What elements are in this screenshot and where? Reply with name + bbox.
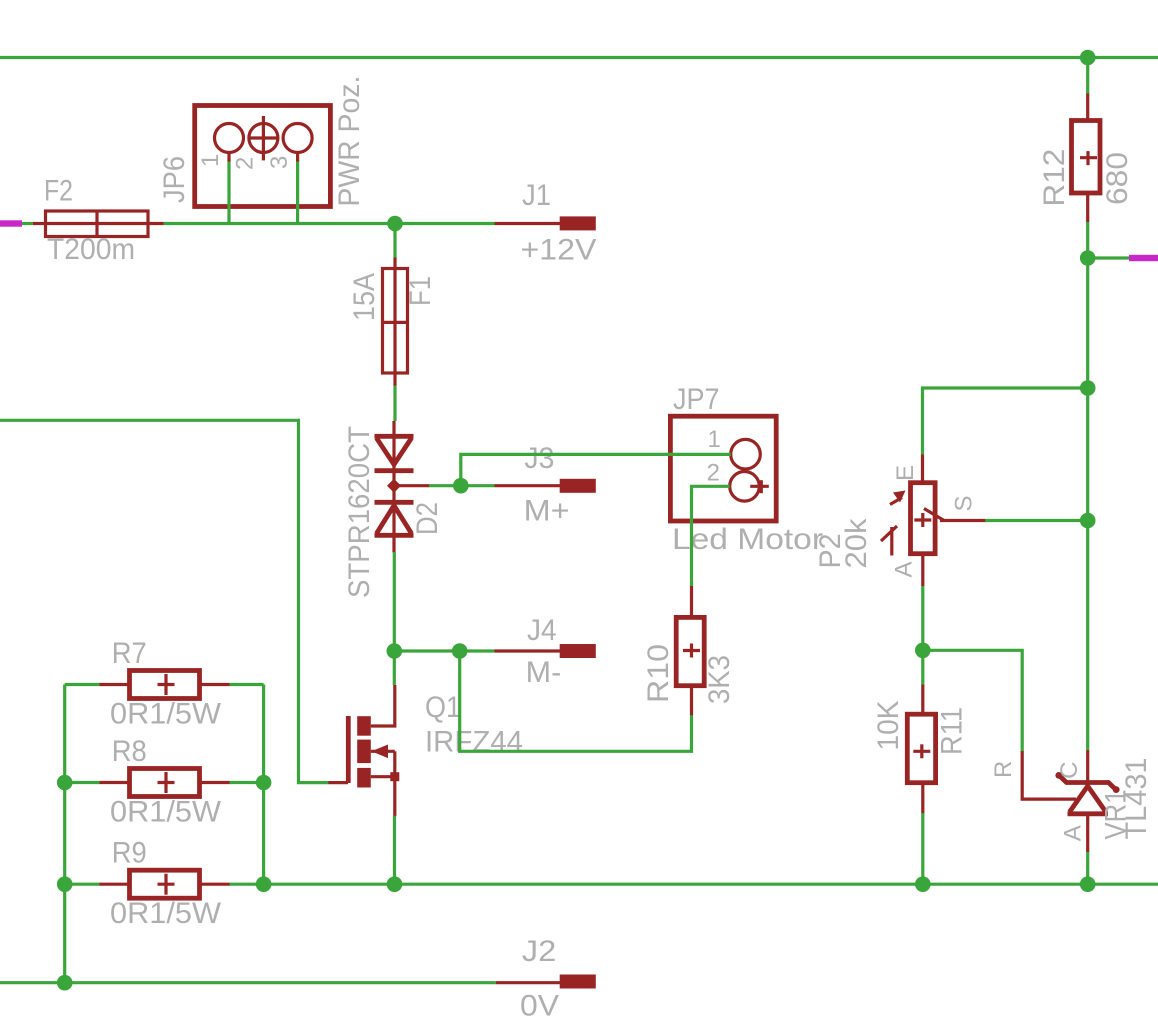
wire J1 pin (495, 222, 561, 225)
node junction top rail (1080, 50, 1096, 66)
wire J2 pin (496, 981, 563, 984)
wire JP6 pin3 stub (296, 152, 299, 161)
svg-text:+12V: +12V (521, 234, 597, 267)
wire F2 right to F1 junction to J1 (163, 222, 495, 225)
wire R node to TL431 ref (923, 650, 1022, 751)
wire VR1 ref pin (1022, 751, 1076, 799)
wire R9 pin left (100, 883, 130, 886)
svg-text:JP6: JP6 (158, 156, 191, 203)
svg-text:1: 1 (708, 426, 721, 453)
node junction R8 left (57, 775, 73, 791)
node junction wiper (1080, 513, 1096, 529)
svg-text:3: 3 (266, 156, 293, 169)
wire R12 pin bottom (1086, 193, 1089, 222)
wire F2 pin left (33, 222, 46, 225)
wire gate feed rail (0, 420, 329, 782)
svg-text:15A: 15A (348, 273, 381, 321)
wire VR1 cathode pin (1086, 750, 1089, 780)
svg-text:IRFZ44: IRFZ44 (425, 726, 523, 759)
wire R8 pin left (100, 781, 130, 784)
connector J1 (560, 216, 596, 230)
transistor Q1 IRFZ44 n-mosfet (348, 685, 399, 816)
svg-text:10K: 10K (872, 701, 905, 751)
wire M+ node segment (429, 484, 495, 487)
node junction source/GND (387, 876, 403, 892)
resistor R7 (130, 671, 200, 699)
svg-text:S: S (951, 495, 978, 511)
svg-text:R11: R11 (936, 707, 969, 755)
node junction R11/GND (915, 876, 931, 892)
svg-text:M-: M- (526, 656, 562, 689)
svg-text:F1: F1 (404, 276, 437, 306)
svg-text:J1: J1 (522, 179, 551, 212)
resistor R9 (130, 870, 200, 898)
node junction 0V left (57, 975, 73, 991)
connector J3 (560, 479, 596, 493)
svg-text:Q1: Q1 (425, 691, 461, 724)
node junction M- right (452, 643, 468, 659)
svg-text:0R1/5W: 0R1/5W (110, 796, 222, 829)
wire M+ up to JP7 pin1 (461, 454, 731, 485)
svg-text:F2: F2 (44, 175, 73, 208)
wire R7 pin left (100, 683, 130, 686)
wire P2 pin bottom (921, 554, 924, 586)
wire F2 pin right (147, 222, 164, 225)
svg-text:JP7: JP7 (673, 383, 720, 416)
wire R12 pin top (1086, 94, 1089, 121)
wire R11 bottom (921, 813, 924, 885)
svg-text:A: A (891, 561, 918, 577)
wire J3 pin (495, 484, 561, 487)
wire P2 wiper to column (985, 519, 1087, 522)
wire F2 left entry (20, 222, 34, 225)
svg-text:Led Motor: Led Motor (672, 523, 823, 556)
svg-text:R7: R7 (112, 637, 147, 670)
svg-text:D2: D2 (411, 502, 444, 535)
svg-text:R9: R9 (112, 837, 147, 870)
wire R10 bottom loop to M- (460, 651, 692, 751)
wire M- down to Q1 drain (393, 651, 396, 685)
node junction R9 left (57, 876, 73, 892)
svg-text:0V: 0V (520, 989, 559, 1022)
resistor R10 (676, 617, 704, 685)
svg-text:1: 1 (197, 154, 224, 167)
svg-text:J3: J3 (524, 442, 554, 475)
node junction P2 feed (1080, 380, 1096, 396)
wire P2 top feed (923, 388, 1088, 455)
svg-text:2: 2 (232, 157, 259, 170)
diode D2 dual common-cathode STPR1620CT (375, 421, 430, 553)
wire VR1 anode bottom (1086, 851, 1089, 884)
potentiometer P2 (881, 483, 986, 556)
wire R10 pin top (690, 586, 693, 617)
wire R9 pin right (199, 883, 230, 886)
wire R8 pin right (199, 781, 230, 784)
svg-text:2: 2 (707, 460, 720, 487)
wire R9 left (65, 883, 100, 886)
svg-text:3K3: 3K3 (703, 655, 736, 704)
wire top +BATT rail (0, 56, 1158, 59)
wire JP6 pin3 drop (296, 160, 299, 224)
svg-text:0R1/5W: 0R1/5W (110, 698, 222, 731)
fuse F1 (383, 269, 408, 374)
svg-text:J2: J2 (522, 935, 557, 968)
wire R11 pin bottom (921, 782, 924, 813)
node junction R12 bottom (1080, 250, 1096, 266)
wire left shunt rail (63, 685, 66, 983)
svg-text:0R1/5W: 0R1/5W (110, 897, 222, 930)
svg-text:T200m: T200m (47, 233, 135, 266)
regulator VR1 TL431 (1055, 772, 1119, 814)
svg-text:E: E (892, 465, 919, 481)
wire R12 bottom column (1086, 221, 1089, 750)
wire 0V rail (0, 981, 496, 984)
wire GND rail (229, 883, 1158, 886)
resistor R12 (1072, 121, 1101, 194)
wire F1 bottom to D2 (393, 385, 396, 421)
wire Q1 gate stub (328, 781, 348, 784)
wire R10 pin bottom (690, 685, 693, 715)
wire P2 bottom (921, 586, 924, 686)
svg-text:TL431: TL431 (1120, 758, 1153, 840)
wire right column top (1086, 58, 1089, 95)
svg-text:A: A (1060, 825, 1087, 841)
wire JP6 pin1 drop (227, 160, 230, 224)
node off-sheet left (0, 220, 22, 226)
svg-text:PWR Poz.: PWR Poz. (333, 76, 366, 207)
wire P2 pin top (921, 455, 924, 483)
wire Q1 source down (393, 816, 396, 884)
node junction R11 top (915, 643, 931, 659)
wire R8 left (65, 781, 100, 784)
node junction VR1/GND (1080, 876, 1096, 892)
wire JP6 pin1 stub (227, 152, 230, 161)
wire R8 right (229, 781, 264, 784)
wire VR1 anode pin (1086, 816, 1089, 852)
fuse F2 (46, 211, 149, 237)
node junction +12V/F1 (387, 216, 403, 232)
connector JP7 (670, 416, 776, 521)
wire R11 pin top (921, 685, 924, 715)
wire R7 pin right (199, 683, 230, 686)
node junction M+ (453, 478, 469, 494)
svg-text:680: 680 (1101, 152, 1134, 205)
wire right exit (1088, 256, 1158, 259)
wire F1 pin bottom (393, 373, 396, 386)
svg-text:R10: R10 (642, 644, 675, 703)
wire right shunt rail (262, 685, 265, 885)
wire R7 right (229, 683, 264, 686)
wire F1 pin top (393, 258, 396, 270)
resistor R8 (130, 769, 200, 797)
svg-text:20k: 20k (840, 517, 873, 568)
connector J4 (560, 644, 596, 658)
svg-text:J4: J4 (527, 614, 557, 647)
wire D2 bottom to M- node (393, 552, 396, 651)
svg-text:C: C (1056, 762, 1083, 779)
svg-text:STPR1620CT: STPR1620CT (343, 426, 376, 598)
node junction R9 right (256, 876, 272, 892)
node junction M- left (387, 643, 403, 659)
wire J4 pin (495, 649, 561, 652)
connector JP6 (195, 106, 331, 207)
connector J2 (560, 975, 596, 989)
svg-text:M+: M+ (524, 494, 570, 527)
wire F1 top (393, 224, 396, 259)
svg-text:R: R (990, 761, 1017, 778)
wire R7 left (65, 683, 100, 686)
node off-sheet right (1129, 255, 1158, 261)
resistor R11 (907, 714, 935, 783)
svg-text:R8: R8 (112, 735, 147, 768)
wire M- to J4 (394, 649, 494, 652)
wire JP7 pin2 to R10 (692, 486, 730, 586)
svg-text:R12: R12 (1038, 149, 1071, 207)
node junction R8 right (256, 775, 272, 791)
